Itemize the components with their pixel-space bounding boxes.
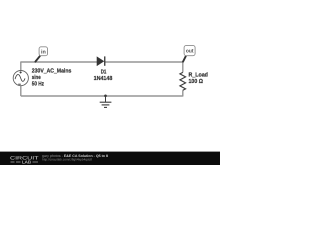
svg-text:out: out xyxy=(186,49,194,55)
diode D1 triangle (anode) xyxy=(97,57,104,66)
wire: bottom horizontal xyxy=(21,95,183,97)
svg-text:LAB: LAB xyxy=(22,159,31,164)
label V1 value: 230V_AC_Mains / sine / 50 Hz xyxy=(32,68,72,88)
wire: top horizontal, diode cathode to right corner xyxy=(105,61,183,63)
wire: top horizontal, source to diode anode xyxy=(21,61,98,63)
node flag "in" stem xyxy=(35,56,39,61)
ground symbol bar 1 xyxy=(100,101,112,103)
junction node dot on bottom wire xyxy=(104,94,107,97)
node flag "out" stem xyxy=(183,56,186,62)
svg-text:http://circuitlab.com/c/8gh4kp: http://circuitlab.com/c/8gh4kpb4qdc8 xyxy=(42,158,92,162)
node flag "in" box xyxy=(39,47,47,56)
svg-text:D1: D1 xyxy=(101,69,107,76)
svg-text:1N4148: 1N4148 xyxy=(94,75,113,82)
ground symbol bar 3 xyxy=(104,106,107,108)
ground symbol stem xyxy=(105,96,107,102)
svg-text:100 Ω: 100 Ω xyxy=(189,78,204,85)
diode D1 cathode bar xyxy=(104,56,105,65)
footer black bar xyxy=(0,152,220,165)
wire: right vertical upper (resistor top stub) xyxy=(182,62,184,73)
svg-text:sine: sine xyxy=(32,74,41,81)
svg-text:in: in xyxy=(41,49,46,55)
voltage source V1 sine waveform xyxy=(15,75,25,82)
svg-text:50 Hz: 50 Hz xyxy=(32,81,44,88)
wire: left vertical lower (source bottom stub) xyxy=(20,86,22,96)
voltage source V1 minus sign xyxy=(18,83,21,85)
wire: right vertical lower (resistor bottom stub) xyxy=(182,90,184,96)
wire: left vertical upper (source top stub) xyxy=(20,62,22,71)
ground symbol bar 2 xyxy=(102,104,110,106)
svg-text:230V_AC_Mains: 230V_AC_Mains xyxy=(32,68,72,75)
voltage source V1 (230V_AC_Mains) circle body xyxy=(13,71,28,86)
footer CircuitLab logo row 2 dashes and LAB xyxy=(11,161,21,163)
node flag "out" box xyxy=(184,45,195,55)
svg-text:R_Load: R_Load xyxy=(189,72,209,79)
resistor R_Load zigzag body xyxy=(180,72,186,90)
voltage source V1 plus sign xyxy=(20,71,22,73)
